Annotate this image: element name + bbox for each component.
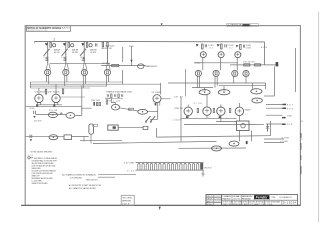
svg-text:ALL FILAMENTS CONNECTED IN PAR: ALL FILAMENTS CONNECTED IN PARALLEL [62, 174, 97, 177]
title block row divider [222, 199, 298, 201]
wire V2 plate link [60, 96, 85, 98]
wire stage3 drop [83, 42, 85, 64]
svg-text:250K: 250K [200, 91, 207, 93]
resistor R12 [240, 44, 242, 49]
svg-text:V1 7025 V2 7025: V1 7025 V2 7025 [35, 92, 61, 94]
potentiometer PI a [212, 146, 222, 151]
svg-text:PER DWG NO: PER DWG NO [242, 199, 252, 201]
grid cap circle stage1 [53, 44, 56, 47]
wire PI line [179, 147, 247, 149]
wire tone to mixer [75, 108, 92, 115]
svg-text:DRN JS: DRN JS [207, 196, 214, 198]
resistor mid link [129, 108, 134, 110]
filament rail top [136, 161, 204, 163]
arrow on dropper [130, 60, 132, 62]
wire right jacks bus 3 [192, 87, 213, 89]
wire lower h-line b [184, 123, 264, 125]
svg-text:20MFD 450V DC: 20MFD 450V DC [145, 66, 158, 68]
wire box drop [270, 121, 272, 136]
AC receptacle [108, 125, 118, 130]
switch footswitch [145, 116, 155, 122]
svg-text:100K: 100K [246, 48, 252, 50]
wire lower h-line mid [216, 121, 237, 123]
wire grid bus 1 [31, 81, 123, 83]
grid cap circle stage3 [89, 44, 92, 47]
wire supply chain horizontal [101, 65, 146, 67]
svg-text:GND: GND [287, 115, 293, 117]
resistor R11 [221, 44, 223, 49]
tube V4 [200, 52, 206, 58]
title block left box [206, 195, 222, 206]
pilot lamp blob [200, 163, 203, 170]
tube V4 internals [202, 53, 205, 56]
wire pot b drop [239, 131, 241, 142]
potentiometer TONE left [66, 113, 75, 119]
svg-text:6-8-64: 6-8-64 [214, 196, 220, 198]
wire mains chain [26, 135, 64, 137]
wire B+ bus [35, 40, 265, 43]
svg-text:410V: 410V [261, 47, 268, 49]
wire long riser x295.5 [295, 48, 297, 92]
wire V2 grid riser [55, 84, 57, 94]
resistor R6 [45, 89, 46, 94]
wire receptacle right [118, 127, 143, 129]
wire pot chain center [120, 108, 138, 111]
pilot lamp [89, 124, 98, 134]
svg-text:4 OHM: 4 OHM [280, 141, 287, 143]
svg-text:8 OHM: 8 OHM [282, 138, 289, 140]
svg-text:Z: Z [53, 38, 55, 42]
svg-text:EXT: EXT [287, 105, 294, 107]
wire drop pot speed [204, 88, 206, 90]
wire output tap 4 [266, 124, 293, 127]
wire jack3 legs [83, 63, 87, 69]
top-left notes box [27, 26, 71, 32]
svg-text:Fender: Fender [256, 195, 269, 199]
wire pot to V3 [148, 110, 158, 112]
svg-text:220K 220K: 220K 220K [91, 100, 101, 102]
resistor R7 [62, 89, 63, 94]
tube V8 [203, 95, 211, 119]
svg-text:APPROVED: APPROVED [122, 200, 132, 203]
input jack J4 [104, 69, 110, 86]
plate arrow stage5 [217, 44, 220, 47]
logo black box [254, 195, 269, 199]
wire stage4 drop [202, 58, 204, 70]
svg-text:6-9-64: 6-9-64 [214, 201, 220, 203]
svg-text:AA763: AA763 [62, 27, 71, 30]
tube element diagonal stage2 [62, 49, 68, 56]
wire stage2 drop [65, 42, 67, 64]
tube V10 [235, 103, 243, 121]
wire V3 plate right [161, 98, 171, 100]
wire ground return left [26, 106, 82, 108]
wire dropper vertical x131.5 [131, 46, 133, 66]
triode stage 3 group [80, 42, 97, 64]
wire chain drop x84 [83, 136, 85, 141]
ground filament [201, 170, 204, 176]
potentiometer INTENSITY [218, 90, 230, 95]
title block col a [222, 195, 232, 206]
wire lower h-line a [181, 117, 237, 119]
wire drop to far pot [252, 83, 254, 89]
wire short y140 [80, 139, 122, 141]
resistor R13 [244, 64, 250, 66]
resistor R2 [68, 43, 69, 48]
svg-text:SEE LAYOUT: SEE LAYOUT [86, 178, 99, 181]
wire stage5 drop [220, 58, 222, 70]
tube V1 [35, 94, 43, 107]
svg-text:PROJ ENG: PROJ ENG [122, 198, 132, 200]
potentiometer center low [138, 109, 148, 114]
capacitor C5 [225, 44, 227, 47]
tube V5 [218, 52, 224, 58]
wire tone stack to pot [111, 99, 115, 105]
wire speaker line 2 [264, 141, 288, 143]
triode stage 6 group [235, 44, 252, 70]
wire lamp drop [90, 134, 92, 143]
svg-text:.005 IN: .005 IN [233, 199, 241, 201]
svg-text:470K: 470K [105, 98, 111, 100]
jack J7 [232, 70, 238, 83]
svg-text:POS: POS [287, 124, 293, 126]
plate arrow stage6 [236, 45, 238, 47]
pin mark V9 [219, 116, 221, 118]
wire box drop b [251, 131, 253, 142]
resistor R10 [202, 44, 204, 49]
svg-text:6V6GT: 6V6GT [245, 110, 252, 112]
wire V3 grid feed [160, 83, 162, 95]
wire bus left stub [34, 41, 36, 43]
wire stage1 drop [47, 42, 49, 64]
resistor R14 [255, 64, 261, 66]
svg-text:.02: .02 [208, 47, 213, 49]
svg-text:.02 470: .02 470 [90, 52, 97, 54]
svg-text:GND: GND [30, 108, 36, 110]
triode stage 5 group [217, 44, 234, 70]
input jack J3 [81, 69, 87, 88]
mains capacitor [30, 135, 32, 142]
wire filament note lead 2 [98, 176, 115, 178]
wire left vertical x181 [180, 97, 182, 142]
svg-text:6.3V GRN: 6.3V GRN [124, 163, 135, 165]
resistor between V9 V10 [230, 108, 231, 112]
fold tick top [161, 23, 163, 25]
svg-text:APP FT: APP FT [207, 200, 214, 203]
V3 leg [159, 102, 161, 106]
svg-text:USED ON FINISH NEXT ASSY QT: USED ON FINISH NEXT ASSY QTY SHEET 1 OF … [222, 203, 273, 206]
svg-text:PILOT 47: PILOT 47 [205, 167, 212, 169]
svg-text:260V 210V: 260V 210V [105, 45, 115, 47]
tube V6 internals [236, 53, 239, 56]
tube V5 internals [220, 53, 223, 56]
triode stage 4 group [195, 44, 215, 70]
capacitor dark PI [246, 141, 248, 144]
transformer box right [237, 121, 250, 131]
capacitor electrolytic chain [138, 64, 144, 69]
svg-text:TO PIN 1: TO PIN 1 [102, 63, 110, 65]
svg-text:6.3V WINDING: 6.3V WINDING [70, 177, 82, 179]
triode stage 1 group [43, 42, 60, 64]
svg-text:ALL RESISTORS 1/2 WATT UNLESS: ALL RESISTORS 1/2 WATT UNLESS NOTED [69, 184, 101, 187]
wire right jacks bus 2 [219, 85, 266, 87]
scan page right edge shadow [318, 12, 320, 222]
wire switch link [150, 118, 158, 120]
tube V2 [52, 94, 60, 107]
wire right jacks bus 1 [168, 82, 266, 84]
potentiometer far right low [252, 98, 262, 103]
potentiometer PI b [229, 141, 239, 146]
speaker symbol [266, 124, 269, 132]
potentiometer SPEED [199, 90, 210, 95]
plate arrow stage1 [45, 43, 48, 46]
svg-text:250K: 250K [220, 91, 227, 93]
drawing border frame [25, 26, 300, 206]
resistor R9 [112, 65, 119, 67]
resistor R1 [50, 43, 51, 48]
component box ground switch [64, 135, 72, 140]
plate arrow stage4 [196, 44, 199, 47]
svg-text:10K 1W 4K7: 10K 1W 4K7 [243, 62, 255, 64]
wire drop x156.5 [156, 128, 158, 137]
inspection stamp box [121, 195, 134, 205]
filament rail bottom [136, 169, 204, 171]
tube V7 [184, 105, 192, 119]
wire grid bus 3 [31, 85, 108, 87]
svg-text:FRACTION: FRACTION [222, 198, 231, 201]
capacitor C10 [205, 44, 206, 47]
bottom row dense text [222, 200, 296, 206]
wire riser x122.6 [122, 70, 124, 84]
capacitor coupling tone [33, 111, 35, 118]
title block divider right of logo [269, 195, 271, 201]
capacitor C4 [96, 43, 97, 46]
tube element diagonal stage3 [80, 49, 86, 56]
wire 4th input drop [107, 47, 109, 63]
border bottom heavy line [21, 204, 300, 206]
wire grid bus 4 [31, 87, 91, 89]
wire V1 grid riser [38, 88, 40, 94]
wire grid link line [50, 62, 110, 64]
wire h96 [264, 95, 275, 97]
plate arrow stage2 [63, 43, 66, 46]
tube V9 [217, 105, 225, 122]
notes symbol [28, 155, 33, 159]
wire driver feed vertical [185, 69, 187, 97]
svg-text:.1 400V: .1 400V [172, 120, 182, 122]
svg-text:.02: .02 [228, 47, 233, 49]
svg-text:CHK RL: CHK RL [207, 199, 213, 201]
grid cap circle stage2 [71, 44, 74, 47]
capacitor C11 [243, 45, 244, 48]
potentiometer tone center [112, 104, 120, 110]
title block col b [233, 195, 242, 206]
svg-text:1M .02: 1M .02 [174, 97, 183, 99]
wire bus left riser [30, 82, 32, 88]
resistor fuse element [143, 126, 148, 129]
svg-text:TREBLE 250K BASS 250K: TREBLE 250K BASS 250K [106, 90, 133, 93]
resistor R5 [107, 42, 108, 47]
svg-text:SPK: SPK [287, 108, 294, 110]
input jack J1 [45, 69, 51, 84]
wire cathode line V1V2 [36, 104, 62, 106]
svg-text:NOTES: UNLESS SPECIFIED: NOTES: UNLESS SPECIFIED [30, 152, 52, 154]
svg-text:470K 1W: 470K 1W [174, 108, 183, 110]
title block outline [206, 195, 298, 206]
wire filament note lead 1 [98, 173, 136, 175]
mixer cluster components [91, 100, 101, 106]
cathode cap stage1 [45, 57, 48, 60]
resistor between V7 V8 [197, 108, 198, 112]
tone stack small parts [106, 94, 123, 103]
wire long low line [93, 141, 217, 143]
svg-text:ALL CAPACITOR VALUES IN MFD: ALL CAPACITOR VALUES IN MFD [69, 187, 96, 190]
svg-text:D-13034: D-13034 [283, 201, 297, 205]
wire jack4 legs [106, 63, 110, 69]
wire bus right drop [264, 42, 266, 65]
wire jack2 legs [64, 63, 68, 69]
wire far pot feed [265, 83, 267, 89]
pin mark V7 [186, 116, 188, 118]
wire long mid line [157, 136, 271, 137]
cathode cap stage3 [82, 57, 85, 60]
title block mid divider [221, 195, 223, 206]
frame scan smudges [300, 133, 301, 174]
diode peak mark [60, 113, 62, 115]
svg-text:470: 470 [28, 155, 33, 157]
wire output tap 3 [266, 115, 293, 118]
revision box dark blob [243, 24, 250, 26]
jack J5 [195, 70, 201, 87]
svg-text:DATE: DATE [122, 203, 130, 206]
wire box to lamp [72, 136, 89, 138]
grid network cluster 4th input [96, 42, 112, 63]
capacitor electrolytic dark [276, 62, 279, 66]
jack J6 [213, 70, 219, 87]
wire drop pot intensity [223, 86, 225, 90]
title block col c [242, 195, 254, 201]
wire dropper vertical x122.7 [122, 47, 124, 62]
svg-text:SCALE: SCALE [207, 203, 214, 206]
svg-text:SCHEMATIC: SCHEMATIC [279, 196, 293, 199]
triode stage 2 group [61, 42, 78, 64]
wire speaker line 1 [264, 138, 289, 140]
svg-text:.047 600: .047 600 [34, 120, 42, 122]
svg-text:REVISED PER ECO 1046: REVISED PER ECO 1046 [27, 30, 47, 32]
svg-text:68K 68K 1M: 68K 68K 1M [102, 48, 112, 50]
wire grid bus 2 [31, 83, 161, 85]
resistor R4 [102, 42, 103, 47]
potentiometer far right top [251, 89, 262, 94]
tube V3 [152, 91, 163, 103]
resistor between V8 V9 [213, 108, 214, 112]
wire right stage link [194, 62, 238, 64]
potentiometer VOLUME left [48, 110, 57, 118]
wire tone chain [36, 113, 67, 115]
wire jack1 legs [46, 63, 50, 69]
fold tick bottom [159, 207, 161, 210]
svg-text:.02 470: .02 470 [54, 52, 61, 54]
svg-text:6-9-64: 6-9-64 [214, 199, 220, 201]
tube element diagonal stage1 [44, 49, 50, 56]
heaters string [138, 164, 199, 171]
wire output tap 1 [266, 104, 294, 107]
cathode cap stage2 [63, 57, 66, 60]
wire riser x81.8 [81, 85, 83, 111]
wire B+ riser x274.5 [274, 66, 276, 96]
V3 pin mark [155, 103, 157, 105]
wire V3 drop [157, 103, 159, 120]
svg-text:CAPACITORS IN MFD: CAPACITORS IN MFD [32, 182, 48, 185]
tube V6 [235, 52, 241, 58]
resistor R8 [105, 98, 111, 104]
svg-text:VOL 1M: VOL 1M [49, 110, 57, 112]
plate arrow stage3 [82, 43, 85, 46]
top-right revision box [227, 24, 259, 27]
svg-text:.02 470: .02 470 [72, 52, 79, 54]
svg-text:6.3V: 6.3V [127, 171, 135, 173]
svg-text:V7 V8: V7 V8 [194, 103, 203, 105]
wire right supply chain [230, 64, 279, 66]
input jack J2 [63, 69, 69, 86]
wire stage6 drop [236, 58, 238, 71]
resistor R3 [86, 43, 87, 48]
wire output tap 2 [266, 108, 294, 111]
jack J8 [243, 70, 249, 83]
potentiometer mains oval [49, 135, 58, 140]
